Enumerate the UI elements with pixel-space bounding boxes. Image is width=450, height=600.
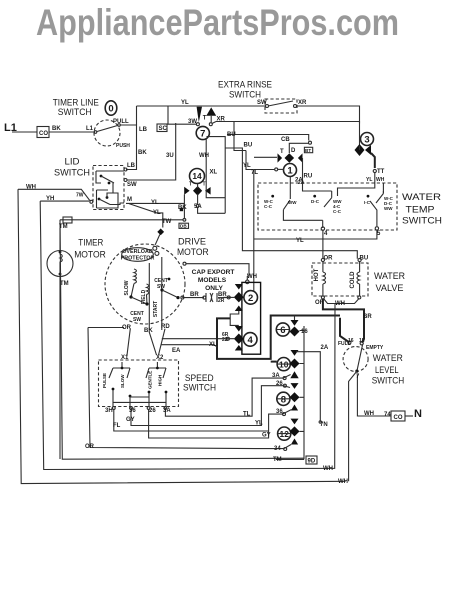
svg-text:SWITCH: SWITCH (183, 383, 216, 393)
svg-text:PULSE: PULSE (102, 373, 107, 388)
svg-text:7L: 7L (251, 170, 258, 176)
svg-text:36: 36 (276, 409, 283, 415)
svg-text:WH: WH (376, 177, 385, 183)
svg-text:X1: X1 (121, 355, 129, 361)
svg-text:SWITCH: SWITCH (372, 375, 405, 385)
svg-text:FIELD: FIELD (141, 289, 147, 304)
svg-text:YL: YL (151, 200, 159, 206)
svg-text:LEVEL: LEVEL (375, 365, 399, 375)
svg-text:COLD: COLD (350, 271, 356, 289)
svg-text:14: 14 (192, 171, 202, 181)
svg-text:C-C: C-C (333, 209, 342, 214)
svg-text:OR: OR (315, 300, 325, 306)
svg-text:9D: 9D (308, 459, 316, 465)
svg-text:WATER: WATER (374, 271, 405, 281)
svg-text:LID: LID (65, 157, 81, 167)
svg-text:7: 7 (200, 129, 205, 140)
svg-text:HIGH: HIGH (158, 375, 163, 386)
svg-text:SLOW: SLOW (120, 374, 125, 388)
svg-text:D-C: D-C (311, 199, 320, 204)
svg-text:4: 4 (248, 335, 254, 346)
svg-text:2A: 2A (298, 180, 305, 186)
svg-text:1: 1 (287, 166, 293, 177)
svg-text:T: T (280, 149, 284, 155)
svg-text:BR: BR (363, 314, 372, 320)
svg-text:YL: YL (255, 421, 263, 427)
svg-text:FL: FL (113, 423, 121, 429)
svg-text:MOTOR: MOTOR (177, 247, 209, 257)
svg-text:SC: SC (159, 126, 168, 132)
svg-text:0: 0 (108, 103, 113, 114)
svg-text:T: T (203, 116, 207, 122)
svg-text:WH: WH (364, 411, 374, 417)
svg-text:XL: XL (210, 170, 218, 176)
svg-text:WH: WH (199, 153, 209, 159)
svg-text:TIMER LINE: TIMER LINE (53, 97, 99, 107)
svg-text:SWITCH: SWITCH (54, 168, 90, 178)
svg-text:WH: WH (335, 301, 345, 307)
svg-text:XL: XL (209, 342, 217, 348)
svg-text:BK: BK (178, 205, 187, 211)
svg-text:T: T (189, 182, 192, 188)
svg-text:GY: GY (262, 433, 271, 439)
svg-text:7N: 7N (320, 422, 328, 428)
svg-text:EA: EA (172, 348, 181, 354)
svg-text:ONLY: ONLY (205, 285, 223, 292)
svg-text:VALVE: VALVE (376, 283, 404, 293)
svg-text:15: 15 (359, 338, 365, 344)
svg-text:PULL: PULL (113, 119, 129, 125)
svg-text:3U: 3U (166, 153, 174, 159)
svg-text:2A: 2A (321, 345, 329, 351)
svg-text:SW: SW (157, 284, 165, 290)
svg-text:BK: BK (144, 328, 153, 334)
svg-text:8: 8 (281, 394, 286, 405)
svg-text:2: 2 (248, 293, 253, 304)
svg-text:TL: TL (243, 412, 251, 418)
svg-text:BU: BU (244, 143, 253, 149)
svg-text:X2: X2 (156, 355, 164, 361)
svg-text:YL: YL (153, 210, 161, 216)
svg-text:2Z: 2Z (222, 337, 228, 343)
svg-text:WH: WH (338, 479, 348, 485)
svg-text:XR: XR (217, 117, 226, 123)
svg-text:MODELS: MODELS (198, 277, 227, 284)
svg-text:SPEED: SPEED (185, 373, 214, 383)
svg-text:MOTOR: MOTOR (74, 250, 106, 260)
svg-text:BK: BK (138, 150, 147, 156)
svg-text:YL: YL (181, 100, 189, 106)
svg-text:TW: TW (162, 219, 172, 225)
svg-text:2R: 2R (218, 298, 225, 304)
svg-text:26: 26 (149, 408, 156, 414)
svg-text:WW: WW (384, 206, 393, 211)
svg-text:CB: CB (281, 137, 290, 143)
svg-text:RU: RU (304, 174, 313, 180)
svg-text:SWITCH: SWITCH (58, 107, 92, 117)
svg-text:TEMP: TEMP (406, 204, 435, 214)
svg-text:7W: 7W (76, 193, 84, 199)
svg-text:SWITCH: SWITCH (402, 216, 442, 226)
svg-text:16: 16 (301, 329, 308, 335)
svg-text:N: N (414, 408, 422, 420)
svg-text:OR: OR (324, 256, 334, 262)
svg-text:WW: WW (288, 200, 297, 205)
svg-text:3A: 3A (163, 408, 171, 414)
svg-text:RD: RD (161, 324, 170, 330)
svg-text:5A: 5A (194, 204, 202, 210)
svg-text:WATER: WATER (402, 192, 442, 202)
svg-text:6: 6 (280, 325, 285, 336)
svg-text:PUSH: PUSH (116, 143, 130, 149)
svg-text:START: START (153, 301, 159, 317)
svg-text:BT: BT (305, 148, 311, 153)
svg-text:C-C: C-C (264, 204, 273, 209)
svg-text:CAP EXPORT: CAP EXPORT (192, 269, 235, 276)
svg-text:BU: BU (227, 132, 236, 138)
svg-text:CO: CO (394, 415, 403, 421)
svg-text:WH: WH (323, 466, 333, 472)
svg-text:YH: YH (46, 196, 54, 202)
svg-text:OR: OR (85, 444, 95, 450)
svg-text:74: 74 (384, 412, 391, 418)
svg-text:34: 34 (274, 446, 281, 452)
svg-text:26: 26 (276, 381, 283, 387)
svg-text:GY: GY (126, 417, 135, 423)
svg-text:3W: 3W (188, 119, 197, 125)
svg-text:I-C: I-C (364, 200, 371, 205)
svg-text:GENTLE: GENTLE (148, 371, 153, 389)
svg-text:CO: CO (39, 131, 48, 137)
svg-text:3H: 3H (105, 408, 113, 414)
svg-text:XR: XR (298, 100, 307, 106)
svg-text:EMPTY: EMPTY (366, 345, 384, 351)
svg-text:WH: WH (26, 185, 36, 191)
svg-text:D: D (291, 148, 296, 154)
svg-text:SW: SW (133, 317, 141, 323)
svg-text:YL: YL (366, 177, 372, 183)
svg-text:BU: BU (360, 256, 369, 262)
svg-text:SW: SW (257, 100, 267, 106)
svg-text:WH: WH (247, 274, 257, 280)
svg-text:BK: BK (52, 126, 61, 132)
svg-text:3: 3 (364, 135, 369, 146)
svg-text:DB: DB (180, 224, 187, 229)
svg-text:AppliancePartsPros.com: AppliancePartsPros.com (36, 2, 399, 43)
svg-text:TM: TM (59, 224, 68, 230)
svg-text:OR: OR (122, 325, 132, 331)
svg-text:WATER: WATER (373, 353, 403, 363)
svg-text:YL: YL (296, 238, 304, 244)
svg-text:SLOW: SLOW (124, 280, 130, 295)
svg-text:36: 36 (129, 408, 136, 414)
svg-text:TM: TM (273, 457, 282, 463)
svg-text:HOT: HOT (314, 268, 320, 281)
svg-text:LB: LB (139, 127, 148, 133)
svg-text:BR: BR (190, 292, 199, 298)
svg-text:YL: YL (243, 163, 251, 169)
svg-text:16: 16 (348, 338, 354, 344)
svg-text:T: T (203, 182, 206, 188)
svg-text:SW: SW (127, 182, 137, 188)
svg-text:3A: 3A (272, 373, 280, 379)
svg-text:EXTRA RINSE: EXTRA RINSE (218, 80, 272, 90)
svg-text:SWITCH: SWITCH (229, 90, 261, 100)
svg-text:LB: LB (127, 163, 136, 169)
svg-text:L1: L1 (86, 126, 94, 132)
svg-text:M: M (127, 197, 132, 203)
svg-text:TT: TT (377, 169, 385, 175)
svg-text:TIMER: TIMER (78, 238, 103, 248)
svg-text:DRIVE: DRIVE (178, 236, 206, 246)
svg-text:TM: TM (60, 281, 69, 287)
